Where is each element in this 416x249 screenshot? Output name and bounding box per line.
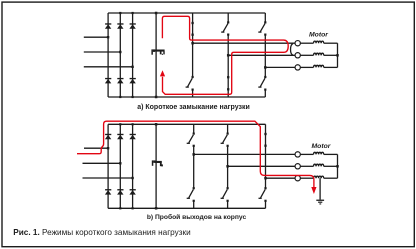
diode D5 (a) — [129, 23, 135, 29]
node rail bottom leg2 (b) — [119, 207, 121, 209]
transistor VT2 bottom leg3 (b) — [259, 178, 267, 208]
svg-text:Motor: Motor — [309, 31, 328, 38]
node phase1 tap (a) — [191, 42, 194, 45]
winding W coil (a) — [314, 65, 324, 67]
terminal circle U (b) — [295, 152, 300, 157]
diode D6 (b) — [117, 189, 123, 195]
node rail bottom leg3 (a) — [132, 96, 134, 98]
capacitor C1 (b) — [152, 160, 163, 166]
node phase3 tap (b) — [264, 177, 267, 180]
winding V coil (b) — [314, 164, 324, 166]
wire AC input 3 (b) — [83, 177, 133, 179]
node phase1 tap (b) — [192, 153, 195, 156]
wire fault current loop (a) — [162, 16, 288, 94]
node input1 junction (b) — [107, 147, 109, 149]
arrowhead current direction (a) — [160, 70, 165, 76]
wire DC+ rail (b) — [108, 123, 265, 125]
wire motor phase V (b) — [228, 165, 295, 167]
wire winding V to bus (b) — [324, 165, 338, 167]
terminal circle W (b) — [295, 176, 300, 181]
svg-text:Рис. 1. Режимы короткого замык: Рис. 1. Режимы короткого замыкания нагру… — [13, 228, 190, 237]
node input2 junction (a) — [119, 51, 121, 53]
diode D1 (a) — [105, 23, 111, 29]
wire rectifier leg 1 (b) — [107, 124, 109, 208]
wire fault current path (b) — [77, 121, 314, 187]
node input3 junction (a) — [131, 66, 133, 68]
wire circle W to winding (a) — [300, 66, 313, 68]
wire DC- rail (a) — [108, 96, 265, 98]
node input2 junction (b) — [119, 162, 121, 164]
diode D3 (a) — [117, 23, 123, 29]
winding V coil (a) — [314, 53, 324, 55]
wire motor phase U (a) — [193, 42, 295, 44]
wire motor phase W (b) — [266, 177, 295, 179]
node cap top (b) — [155, 123, 158, 126]
wire circle V to winding (a) — [300, 54, 313, 56]
diode D4 (b) — [105, 189, 111, 195]
transistor VT5 top leg3 (b) (closed) — [264, 124, 266, 178]
node rail bottom leg2 (a) — [119, 96, 121, 98]
node rail top leg2 (b) — [119, 123, 121, 125]
winding W coil (b) — [314, 176, 324, 178]
node cap top (a) — [155, 12, 158, 15]
wire AC input 2 (a) — [84, 51, 121, 53]
wire motor phase V (a) — [228, 54, 295, 56]
transistor VT2 bottom leg3 (a) — [258, 67, 266, 97]
node phase2 tap (b) — [226, 165, 229, 168]
diode D4 (a) — [105, 78, 111, 84]
winding U coil (b) — [314, 152, 324, 154]
node star point (a) — [336, 54, 339, 57]
wire AC input 1 (a) — [84, 36, 108, 38]
transistor VT1 top leg1 (b) — [187, 124, 195, 154]
diode D5 (b) — [129, 134, 135, 140]
wire rectifier leg 3 (a) — [132, 13, 134, 97]
node input1 junction (a) — [107, 36, 109, 38]
wire winding W to bus (b) — [324, 177, 338, 179]
transistor VT3 top leg2 (a) — [221, 13, 229, 55]
wire rectifier leg 2 (b) — [119, 124, 121, 208]
wire DC+ rail (a) — [108, 12, 265, 14]
wire winding U to bus (b) — [324, 153, 338, 155]
node input3 junction (b) — [131, 177, 133, 179]
wire circle V to winding (b) — [300, 165, 313, 167]
capacitor C1 (a) — [151, 49, 164, 55]
transistor VT6 bottom leg2 (a) (closed) — [227, 55, 229, 97]
wire motor phase W (a) — [265, 66, 295, 68]
wire DC-link branch (b) — [155, 124, 157, 208]
wire ground lead (b) — [319, 178, 321, 199]
wire motor star bus (a) — [337, 43, 339, 67]
diode D1 (b) — [105, 134, 111, 140]
wire rectifier leg 1 (a) — [107, 13, 109, 97]
diode D6 (a) — [117, 78, 123, 84]
wire circle U to winding (b) — [300, 153, 313, 155]
wire rectifier leg 3 (b) — [132, 124, 134, 208]
short-circuit fault arc (a) — [291, 44, 293, 56]
wire AC input 2 (b) — [83, 162, 121, 164]
terminal circle U (a) — [295, 41, 300, 46]
node rail top leg2 (a) — [119, 12, 121, 14]
diode D2 (a) — [129, 78, 135, 84]
node cap bottom (a) — [155, 96, 158, 99]
wire rectifier leg 2 (a) — [119, 13, 121, 97]
wire DC-link branch (a) — [155, 13, 157, 97]
terminal circle V (a) — [295, 53, 300, 58]
wire motor phase U (b) — [194, 153, 295, 155]
terminal circle V (b) — [295, 164, 300, 169]
ground symbol — [316, 200, 324, 205]
winding U coil (a) — [314, 41, 324, 43]
node rail top leg3 (b) — [132, 123, 134, 125]
wire circle U to winding (a) — [300, 42, 313, 44]
node cap bottom (b) — [155, 207, 158, 210]
wire winding W to bus (a) — [324, 66, 338, 68]
svg-text:а) Короткое замыкание нагрузки: а) Короткое замыкание нагрузки — [137, 104, 250, 111]
transistor VT6 bottom leg2 (b) — [221, 166, 229, 208]
transistor VT1 top leg1 (a) (closed) — [191, 13, 193, 43]
diode D3 (b) — [117, 134, 123, 140]
wire motor star bus (b) — [337, 154, 339, 178]
diode D2 (b) — [129, 189, 135, 195]
node rail top leg3 (a) — [132, 12, 134, 14]
wire AC input 3 (a) — [84, 66, 133, 68]
wire winding U to bus (a) — [324, 42, 338, 44]
transistor VT4 bottom leg1 (b) — [187, 154, 195, 208]
wire AC input 1 (b) — [84, 147, 108, 149]
node phase2 tap (a) — [227, 54, 230, 57]
node star point (b) — [336, 165, 339, 168]
wire circle W to winding (b) — [300, 177, 313, 179]
arrowhead current direction (b) — [311, 187, 316, 194]
wire winding V to bus (a) — [324, 54, 338, 56]
transistor VT4 bottom leg1 (a) — [186, 43, 194, 97]
node rail bottom leg3 (b) — [132, 207, 134, 209]
node phase3 tap (a) — [264, 66, 267, 69]
transistor VT5 top leg3 (a) — [258, 13, 266, 67]
svg-text:b) Пробой выходов на корпус: b) Пробой выходов на корпус — [147, 213, 247, 221]
svg-text:Motor: Motor — [312, 143, 331, 150]
wire DC- rail (b) — [108, 207, 265, 209]
transistor VT3 top leg2 (b) — [221, 124, 229, 166]
terminal circle W (a) — [295, 65, 300, 70]
